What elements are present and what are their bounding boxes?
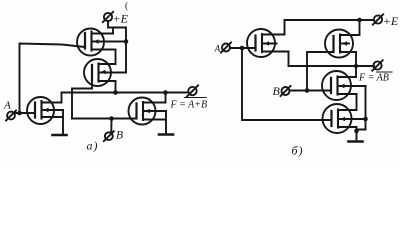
svg-text:A: A bbox=[3, 100, 11, 112]
wire T3 substrate join to source bbox=[165, 111, 167, 120]
wire T2 gate lead from node A bbox=[20, 44, 86, 114]
wire T1 source to ground bbox=[62, 117, 64, 135]
wire Tmid gate lead down-left to node B column bbox=[72, 80, 92, 119]
wire T2 drain to +E bbox=[112, 28, 114, 34]
junction T5 drain on +E rail bbox=[357, 18, 362, 23]
output terminal F (circuit b) bbox=[372, 60, 382, 70]
wire output rail circuit a bbox=[62, 92, 189, 94]
wire T3 source to ground bbox=[165, 120, 167, 135]
wire node A down to T7 gate bbox=[242, 48, 332, 120]
svg-text:B: B bbox=[116, 130, 123, 142]
junction T2 substrate to +E bbox=[124, 39, 129, 44]
power terminal +E (circuit b) bbox=[373, 14, 399, 28]
svg-text:F = A+B: F = A+B bbox=[170, 100, 208, 111]
wire output node to terminal bbox=[356, 65, 374, 67]
ground (circuit b) bbox=[349, 140, 363, 143]
label F = AB (circuit b) bbox=[358, 72, 392, 84]
wire node B run to T3 gate bbox=[72, 118, 137, 120]
wire T1 substrate join to source bbox=[62, 110, 64, 117]
input terminal B (circuit a) bbox=[104, 119, 123, 142]
junction T7 substrate bbox=[363, 117, 368, 122]
svg-text:+E: +E bbox=[383, 14, 399, 28]
transistor T4 (p-channel, gate A) bbox=[247, 29, 289, 57]
ground (T3 source) bbox=[159, 133, 173, 136]
svg-text:а): а) bbox=[87, 139, 99, 153]
wire +E rail circuit b bbox=[285, 19, 374, 21]
wire T5 source down to output node bbox=[355, 52, 357, 66]
transistor T5 (p-channel, gate B) bbox=[325, 30, 360, 58]
transistor T6 (n-channel, gate B) bbox=[322, 71, 366, 100]
junction Tmid source on output rail bbox=[113, 90, 118, 95]
junction T3 drain on output rail bbox=[163, 90, 168, 95]
wire T6 substrate down to ground column bbox=[357, 86, 366, 130]
wire T4 drain up to +E rail bbox=[284, 20, 286, 35]
wire T6 source to T7 drain bbox=[356, 94, 358, 110]
svg-text:F = AB: F = AB bbox=[358, 73, 389, 84]
wire output node down to T6 drain bbox=[355, 66, 357, 77]
label F = A+B (circuit a) bbox=[170, 98, 208, 111]
junction output node (circuit b) bbox=[354, 64, 358, 68]
junction node A bbox=[17, 111, 22, 116]
wire T3 drain up to output rail bbox=[165, 93, 167, 103]
power terminal +E (circuit a) bbox=[103, 1, 129, 26]
ground (T1 source) bbox=[53, 134, 67, 137]
svg-text:(: ( bbox=[125, 1, 128, 12]
junction node B bbox=[109, 116, 114, 121]
wire Tmid source to output rail bbox=[115, 81, 117, 93]
wire T5 drain up to +E rail bbox=[359, 20, 361, 35]
transistor T1 (n-channel, gate A) bbox=[27, 97, 63, 124]
transistor T2 (p-channel, gate A) bbox=[77, 29, 126, 56]
wire node B up to T5 gate bbox=[307, 52, 334, 91]
svg-text:б): б) bbox=[292, 144, 304, 158]
junction T7 source with substrate return bbox=[354, 129, 359, 134]
input terminal A (circuit a) bbox=[3, 100, 35, 121]
transistor T7 (n-channel, gate A) bbox=[323, 104, 366, 133]
wire T1 drain up to output rail bbox=[61, 93, 63, 103]
svg-text:+E: +E bbox=[113, 12, 129, 26]
svg-text:A: A bbox=[214, 45, 221, 55]
transistor T3 (n-channel, gate B) bbox=[129, 98, 167, 125]
wire T7 source to ground bbox=[356, 127, 358, 142]
junction node B (circuit b) bbox=[305, 88, 310, 93]
wire +E rail circuit a bbox=[108, 21, 126, 73]
transistor Tmid (p-channel, gate B) bbox=[84, 59, 126, 86]
input terminal A (circuit b) bbox=[214, 43, 256, 55]
wire T2 source to Tmid drain bbox=[115, 50, 117, 65]
input terminal B (circuit b) bbox=[273, 84, 332, 98]
junction node A (circuit b) bbox=[240, 46, 245, 51]
wire T4 source to output node bbox=[289, 52, 357, 67]
output terminal F (circuit a) bbox=[187, 85, 198, 96]
